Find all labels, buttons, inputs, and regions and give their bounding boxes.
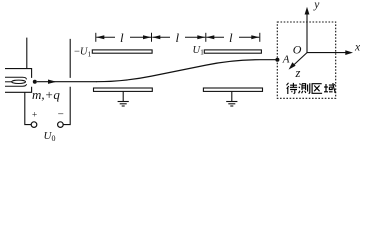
ground G1 <box>118 91 129 106</box>
plate P1 bottom (grounded) <box>94 88 153 91</box>
wire cathode top lead <box>26 38 28 69</box>
dashed measurement region box <box>277 22 335 98</box>
plate P2 top (U1) <box>204 50 261 53</box>
particle dot at source <box>33 80 37 84</box>
测 <box>299 83 310 93</box>
plate P1 top (-U1) <box>92 50 152 53</box>
axis x <box>307 52 347 54</box>
terminal - (circle) <box>58 122 64 128</box>
node A dot (beam exit point) <box>275 58 279 62</box>
svg-text:l: l <box>120 30 124 45</box>
svg-text:−U1: −U1 <box>74 47 92 59</box>
beam initial arrow <box>37 81 97 83</box>
svg-text:U0: U0 <box>44 130 56 143</box>
filament F (heater coil) <box>5 77 26 86</box>
svg-text:z: z <box>295 66 301 80</box>
区 <box>312 84 322 94</box>
svg-text:−: − <box>58 109 64 121</box>
svg-text:A: A <box>282 54 290 66</box>
terminal + (circle) <box>31 122 37 128</box>
svg-text:O: O <box>293 43 302 57</box>
svg-text:U1: U1 <box>193 45 205 57</box>
beam trajectory curve <box>96 60 277 82</box>
域 <box>324 83 335 92</box>
label 待测区域 (region under test, drawn strokes) <box>287 83 336 94</box>
ground G2 <box>226 91 237 106</box>
cathode housing (open box with aperture gap) <box>5 69 32 93</box>
svg-text:l: l <box>229 30 233 45</box>
dimension line with ticks and arrows (3 spans of l) <box>96 33 260 42</box>
aperture electrode / - lead <box>63 39 70 125</box>
svg-text:y: y <box>313 0 320 11</box>
svg-text:l: l <box>176 30 180 45</box>
待 <box>287 83 298 94</box>
svg-text:m,+q: m,+q <box>32 87 60 102</box>
svg-text:+: + <box>32 111 37 121</box>
wire + lead to battery <box>25 92 31 124</box>
svg-text:x: x <box>354 42 361 54</box>
plate P2 bottom (grounded) <box>203 88 262 91</box>
axis z <box>293 53 307 66</box>
axis y <box>306 13 308 53</box>
